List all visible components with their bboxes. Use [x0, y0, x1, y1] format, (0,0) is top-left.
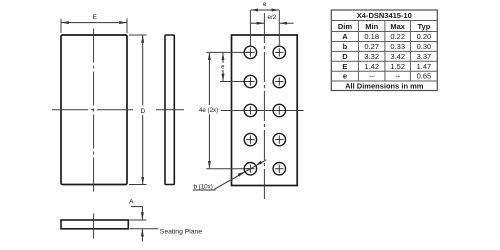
svg-text:4e (2x): 4e (2x) [199, 107, 218, 114]
table row E [342, 62, 431, 71]
svg-text:0.30: 0.30 [417, 42, 432, 51]
table horizontal line under row E [331, 70, 437, 72]
table row D [342, 52, 431, 61]
dimension e top extension line left column [249, 10, 251, 46]
svg-text:b: b [343, 42, 348, 51]
svg-text:b (10x): b (10x) [194, 184, 213, 191]
svg-text:e: e [343, 72, 347, 81]
svg-text:1.52: 1.52 [390, 62, 405, 71]
label 4e (2x) background [199, 105, 220, 115]
svg-text:Dim: Dim [338, 22, 353, 31]
dimension A lower arrow (points up) [141, 229, 143, 241]
dimension table outer border [331, 10, 437, 91]
pad circle row4 col2 [273, 133, 285, 145]
bottom view vertical centerline [93, 214, 95, 239]
svg-text:0.18: 0.18 [364, 32, 379, 41]
pad circle row2 col2 [273, 75, 285, 87]
dimension E extension line left [60, 19, 62, 34]
dimension A upper arrow (points down) [141, 207, 143, 220]
svg-text:X4-DSN3415-10: X4-DSN3415-10 [357, 11, 412, 20]
svg-text:D: D [140, 108, 145, 115]
svg-text:A: A [342, 32, 348, 41]
seating plane line [130, 228, 159, 230]
pad circle row3 col1 [244, 104, 256, 116]
table horizontal line under row D [331, 60, 437, 62]
leader b arrow upper-right [256, 161, 263, 166]
leader b diagonal line [214, 160, 266, 190]
pad circle row4 col1 [244, 133, 256, 145]
dimension e top line with arrows [251, 9, 279, 11]
table vertical line Max|Typ [409, 21, 411, 82]
svg-text:1.47: 1.47 [417, 62, 432, 71]
dimension e top extension line right column [278, 10, 280, 46]
dimension E extension line right [126, 19, 128, 34]
pad row2 extension line [220, 81, 250, 83]
svg-text:0.27: 0.27 [364, 42, 379, 51]
pad circle row5 col1 [244, 163, 256, 175]
dimension 4e (2x) line with arrows [208, 53, 210, 169]
svg-text:0.65: 0.65 [417, 72, 432, 81]
pad row5 extension line [206, 168, 250, 170]
svg-text:0.22: 0.22 [390, 32, 405, 41]
svg-text:e/2: e/2 [267, 14, 276, 21]
svg-text:0.33: 0.33 [390, 42, 405, 51]
dimension D extension line bottom [129, 184, 147, 186]
dimension A connector from label [131, 206, 142, 208]
side view horizontal centerline [156, 109, 184, 111]
leader b underline [193, 189, 216, 191]
table vertical line Min|Max [384, 21, 386, 82]
pad circle row2 col1 [244, 75, 256, 87]
dimension A extension line top [130, 219, 147, 221]
table horizontal line under row b [331, 50, 437, 52]
table horizontal line under row e [331, 80, 437, 82]
svg-text:A: A [129, 199, 134, 206]
svg-text:--: -- [369, 72, 374, 81]
pad view body outline [232, 35, 298, 186]
pad view vertical centerline [263, 13, 265, 199]
label e left background [220, 63, 226, 70]
dimension D extension line top [129, 34, 147, 36]
bottom view body outline [61, 220, 128, 229]
svg-text:E: E [93, 14, 98, 21]
svg-text:0.20: 0.20 [417, 32, 432, 41]
table row b [343, 42, 432, 51]
pad row1 extension line [206, 51, 250, 53]
leader b arrow lower-left [238, 172, 245, 177]
table row A [342, 32, 431, 41]
svg-text:D: D [342, 52, 348, 61]
side view body outline [165, 35, 174, 185]
svg-text:All Dimensions in mm: All Dimensions in mm [345, 81, 424, 90]
svg-text:Max: Max [390, 22, 405, 31]
svg-text:1.42: 1.42 [364, 62, 379, 71]
front view horizontal centerline [52, 109, 136, 111]
svg-text:3.42: 3.42 [390, 52, 405, 61]
svg-text:Min: Min [365, 22, 378, 31]
table horizontal line under row A [331, 41, 437, 43]
pad circle row1 col1 [244, 46, 256, 58]
table row e [343, 72, 431, 81]
dimension e/2 left tail with arrow [250, 22, 264, 24]
table vertical line Dim|Min [357, 21, 359, 82]
svg-text:3.32: 3.32 [364, 52, 379, 61]
dimension e left (vertical) line with arrows [222, 53, 224, 81]
dimension E line with arrows [61, 22, 126, 24]
table horizontal line under header [331, 31, 437, 33]
label D background [139, 106, 147, 116]
svg-text:Seating Plane: Seating Plane [160, 228, 203, 235]
pad circle row3 col2 [273, 104, 285, 116]
front view vertical centerline [93, 29, 95, 194]
table horizontal line under title [331, 20, 437, 22]
svg-text:Typ: Typ [418, 22, 431, 31]
dimension e/2 right tail with arrow [280, 22, 294, 24]
svg-text:--: -- [395, 72, 400, 81]
pad circle row5 col2 [273, 163, 285, 175]
dimension D line with arrows [142, 35, 144, 184]
svg-text:3.37: 3.37 [417, 52, 432, 61]
front view body outline [61, 35, 127, 185]
pad circle row1 col2 [273, 46, 285, 58]
pad view horizontal centerline row 3 [221, 110, 304, 112]
svg-text:E: E [342, 62, 347, 71]
